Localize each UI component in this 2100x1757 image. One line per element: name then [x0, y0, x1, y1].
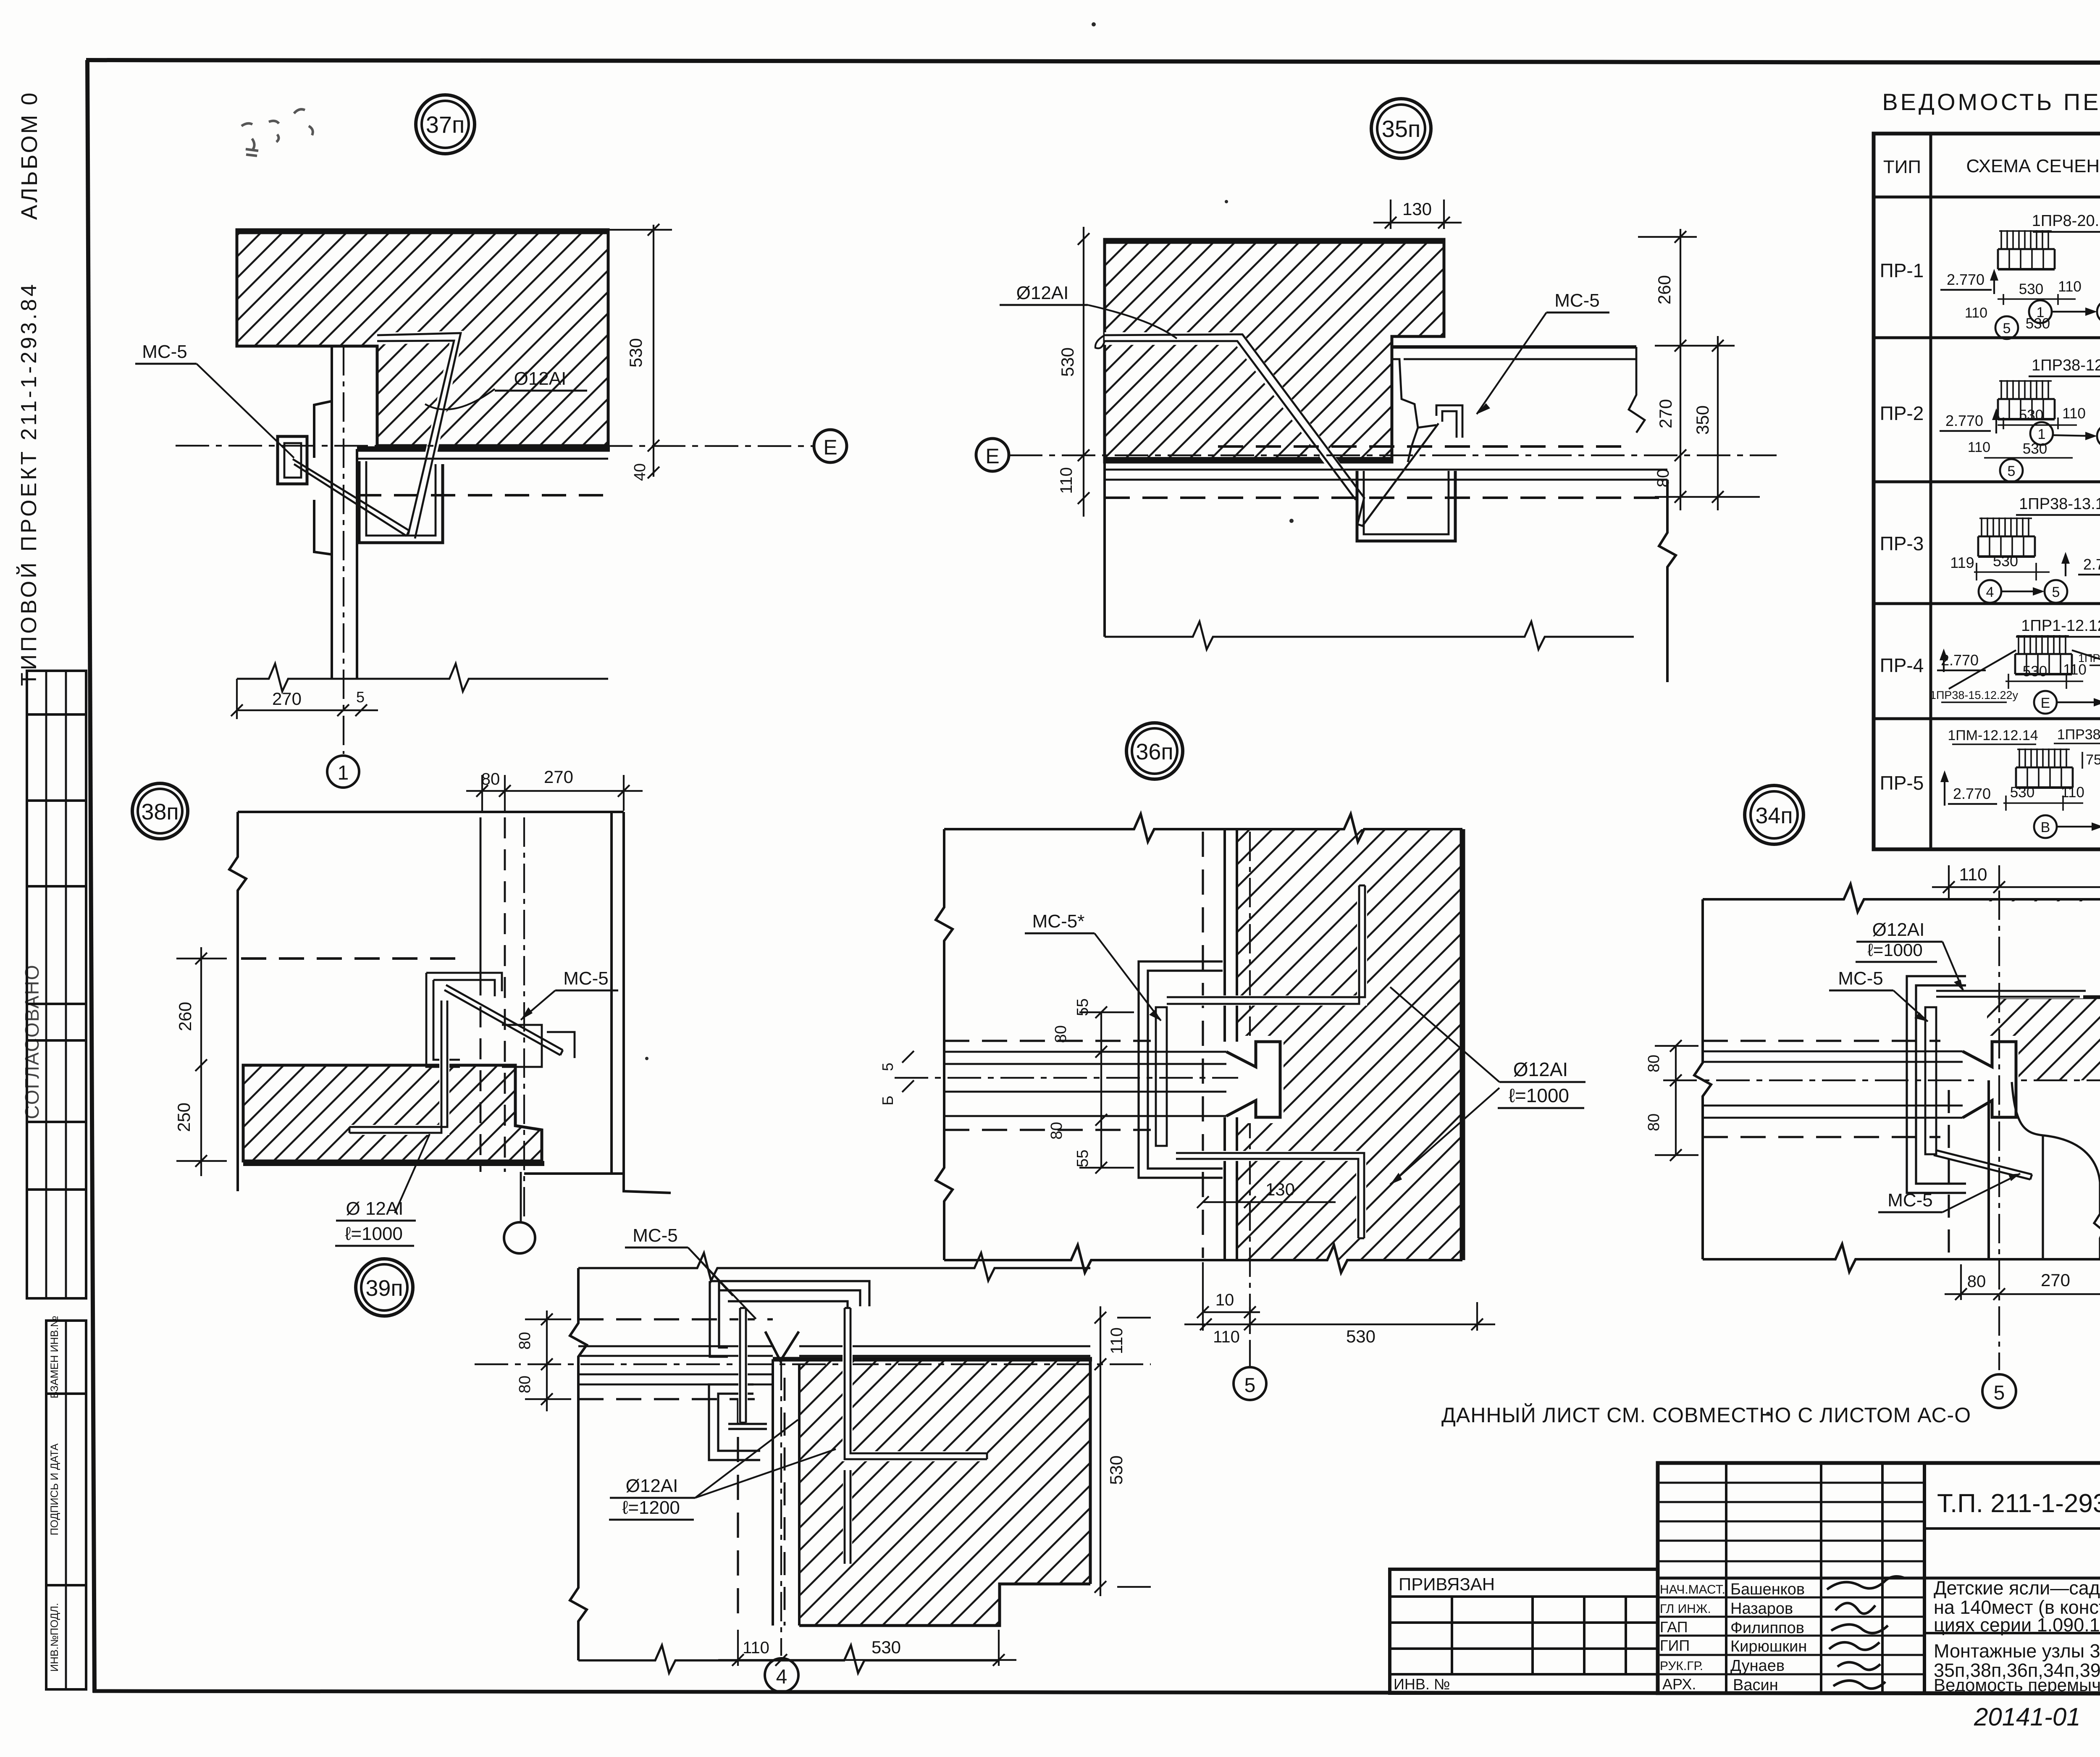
detail 34p wall joint verticals below — [1949, 1080, 1989, 1259]
svg-text:350: 350 — [1693, 405, 1712, 435]
detail 35p bottom break line — [1105, 622, 1634, 649]
svg-text:80: 80 — [481, 770, 500, 788]
svg-text:55: 55 — [1074, 998, 1092, 1016]
detail 36p label MC-5* — [1025, 911, 1161, 1021]
svg-text:Ø 12АІ: Ø 12АІ — [346, 1198, 404, 1219]
svg-text:Филиппов: Филиппов — [1730, 1619, 1804, 1637]
detail 35p bent rebar with V end — [1095, 334, 1438, 526]
lintel schedule grid — [1874, 134, 2100, 849]
detail 36p funnel joint — [1238, 1036, 1284, 1123]
svg-text:МС-5: МС-5 — [563, 968, 609, 989]
detail 39p bottom dimension 110/530 — [718, 1630, 1016, 1666]
detail 36p bottom dimensions 10/110/530 — [1184, 1262, 1495, 1346]
svg-text:530: 530 — [2023, 663, 2047, 680]
PR-5 section schema — [1940, 727, 2100, 838]
detail 34p label MC-5 lower — [1878, 1174, 2020, 1212]
detail 34p vertical axis dash-dot — [1998, 890, 2000, 1370]
svg-text:130: 130 — [1265, 1179, 1295, 1199]
svg-text:Т.П. 211-1-293.84: Т.П. 211-1-293.84 — [1937, 1489, 2100, 1518]
svg-text:Назаров: Назаров — [1730, 1600, 1793, 1618]
svg-text:20141-01: 20141-01 — [1974, 1703, 2081, 1731]
detail 38p L-rebar in slab — [349, 1001, 447, 1133]
svg-text:РУК.ГР.: РУК.ГР. — [1660, 1659, 1703, 1673]
detail 37p bottom dimension 270 — [231, 679, 378, 719]
svg-text:55: 55 — [1074, 1150, 1092, 1167]
svg-text:1ПР38-15.12.22у: 1ПР38-15.12.22у — [2057, 727, 2100, 743]
detail 35p roof slab right — [1392, 347, 1645, 433]
svg-text:1ПР38-13.12.22у: 1ПР38-13.12.22у — [2019, 495, 2100, 513]
svg-text:ТИПОВОЙ ПРОЕКТ 211-1-293.84: ТИПОВОЙ ПРОЕКТ 211-1-293.84 — [16, 282, 41, 686]
detail 36p axis circle 5 — [1234, 1367, 1266, 1400]
detail 37p axis circle E — [814, 430, 847, 462]
svg-text:ℓ=1200: ℓ=1200 — [622, 1497, 680, 1518]
svg-text:250: 250 — [174, 1103, 194, 1132]
detail 38p label d12AI l=1000 — [335, 1134, 430, 1246]
svg-text:Ø12АІ: Ø12АІ — [1016, 283, 1069, 303]
svg-text:119: 119 — [1950, 554, 1974, 571]
detail 35p trough below joint — [1357, 471, 1455, 541]
svg-text:Е: Е — [985, 444, 999, 468]
detail 38p top dimension 80/270 — [466, 767, 643, 811]
svg-text:2.770: 2.770 — [1953, 785, 1991, 802]
svg-text:циях серии 1.090.1-1): циях серии 1.090.1-1) — [1934, 1614, 2100, 1636]
svg-text:80: 80 — [516, 1332, 534, 1350]
svg-text:34п: 34п — [1755, 803, 1793, 828]
svg-text:1: 1 — [2037, 305, 2045, 320]
svg-text:1: 1 — [2038, 426, 2046, 442]
svg-text:МС-5: МС-5 — [142, 341, 187, 362]
detail 36p label d12AI l=1000 — [1390, 987, 1585, 1184]
svg-text:Дунаев: Дунаев — [1730, 1657, 1785, 1675]
detail 36p upper L-rebar — [1167, 885, 1365, 1004]
detail 35p axis circle E — [976, 439, 1009, 471]
detail 36p floor band lines — [895, 1041, 1239, 1130]
svg-text:ПР-1: ПР-1 — [1880, 260, 1924, 281]
detail 34p bottom dimension 80/270 — [1945, 1264, 2100, 1300]
svg-text:ℓ=1000: ℓ=1000 — [1509, 1085, 1569, 1106]
svg-text:2.770: 2.770 — [2083, 556, 2100, 573]
svg-text:270: 270 — [2041, 1270, 2070, 1290]
svg-text:СОГЛАСОВАНО: СОГЛАСОВАНО — [21, 964, 43, 1119]
svg-text:110: 110 — [2062, 405, 2086, 422]
svg-text:ПР-2: ПР-2 — [1880, 402, 1924, 424]
svg-text:5: 5 — [879, 1063, 896, 1071]
svg-text:270: 270 — [1656, 399, 1675, 428]
svg-text:530: 530 — [871, 1637, 901, 1657]
title block signatures — [1827, 1576, 1905, 1689]
detail 38p wall outline — [229, 812, 671, 1193]
PR-1 section schema — [1940, 212, 2100, 339]
svg-text:38п: 38п — [141, 799, 178, 825]
svg-text:80: 80 — [516, 1376, 534, 1393]
detail 34p funnel joint — [1974, 1036, 2019, 1123]
detail 36p small dimensions 55/80/80/55 — [879, 998, 1134, 1174]
svg-text:Ø12АІ: Ø12АІ — [1872, 919, 1925, 940]
detail 35p wall verticals below — [1105, 462, 1676, 682]
svg-text:270: 270 — [544, 767, 573, 787]
detail 35p top dimension 130 — [1373, 199, 1462, 229]
detail 37p label MC-5 — [135, 341, 294, 458]
svg-text:Ø12АІ: Ø12АІ — [626, 1476, 678, 1496]
detail 39p bottom break line — [578, 1645, 1000, 1673]
svg-text:ТИП: ТИП — [1883, 157, 1921, 177]
svg-text:10: 10 — [1215, 1291, 1234, 1309]
svg-text:110: 110 — [1108, 1327, 1126, 1354]
inventory strip boxes — [46, 1321, 86, 1394]
detail 39p top break line — [578, 1253, 1090, 1281]
detail 38p inner wall verticals — [480, 817, 505, 1172]
svg-text:80: 80 — [1048, 1122, 1066, 1140]
svg-text:260: 260 — [175, 1002, 195, 1031]
detail 37p trough below joint — [359, 461, 443, 543]
sheet border left line — [87, 60, 94, 1693]
detail 37p wall edges below — [314, 346, 357, 679]
detail 37p right dimension 530 — [608, 224, 672, 481]
detail 34p label d12AI l=1000 — [1856, 919, 1963, 991]
svg-text:ПРИВЯЗАН: ПРИВЯЗАН — [1399, 1574, 1495, 1594]
svg-text:1ПМ-12.12.14: 1ПМ-12.12.14 — [1948, 727, 2038, 743]
detail 37p hatched wall section — [237, 230, 610, 449]
svg-text:Е: Е — [823, 436, 837, 459]
svg-text:Е: Е — [2041, 695, 2050, 711]
detail 35p label MC-5 — [1477, 290, 1609, 414]
detail 39p funnel joint — [765, 1332, 799, 1361]
svg-text:110: 110 — [1213, 1328, 1240, 1346]
svg-text:Башенков: Башенков — [1730, 1581, 1805, 1598]
svg-text:110: 110 — [1968, 439, 1990, 455]
svg-text:1: 1 — [338, 762, 349, 784]
detail 36p grout pocket brackets — [1139, 961, 1223, 1178]
svg-text:ДАННЫЙ ЛИСТ СМ. СОВМЕСТНО С ЛИ: ДАННЫЙ ЛИСТ СМ. СОВМЕСТНО С ЛИСТОМ АС-О — [1441, 1403, 1971, 1427]
svg-text:530: 530 — [2019, 407, 2043, 423]
PR-4 section schema — [1930, 617, 2100, 714]
detail 34p label MC-5 upper — [1829, 968, 1928, 1022]
svg-text:130: 130 — [1402, 199, 1432, 219]
svg-text:530: 530 — [1058, 347, 1077, 377]
svg-text:ℓ=1000: ℓ=1000 — [1867, 940, 1923, 960]
svg-text:Васин: Васин — [1733, 1676, 1778, 1694]
detail 37p label d12AI — [425, 368, 587, 410]
svg-text:НАЧ.МАСТ.: НАЧ.МАСТ. — [1660, 1583, 1725, 1597]
approvals strip outer box — [27, 671, 86, 1298]
detail 39p left rebar — [740, 1308, 746, 1423]
detail 35p label d12AI — [1000, 283, 1177, 339]
svg-text:80: 80 — [1645, 1055, 1663, 1072]
detail 39p floor band lines — [475, 1319, 1151, 1399]
detail 37p bar channel white slot — [377, 337, 457, 537]
svg-text:Кирюшкин: Кирюшкин — [1730, 1638, 1807, 1655]
detail 37p axis circle 1 — [327, 756, 359, 788]
detail 37p bottom break line — [237, 664, 608, 691]
detail 34p beam seat profile curves — [2012, 1082, 2100, 1259]
lintel schedule header labels — [1883, 146, 2100, 199]
row type labels — [1880, 260, 1924, 794]
detail 36p hatched wall right — [1237, 829, 1462, 1260]
approvals strip row lines — [27, 713, 86, 716]
svg-text:110: 110 — [1959, 864, 1987, 884]
svg-text:110: 110 — [2061, 784, 2084, 801]
svg-text:ПР-4: ПР-4 — [1880, 654, 1924, 676]
svg-text:1ПР1-12.12.14: 1ПР1-12.12.14 — [2021, 617, 2100, 635]
detail 36p outer square outline — [936, 814, 1462, 1273]
detail 39p label d12AI l=1200 — [609, 1420, 836, 1520]
detail 38p diagonal strap MC-5 — [444, 985, 563, 1055]
detail 37p title circle — [416, 95, 475, 154]
svg-text:5: 5 — [2052, 584, 2060, 600]
svg-text:75: 75 — [2086, 752, 2100, 768]
svg-text:110: 110 — [1057, 467, 1076, 494]
title block grid — [1390, 1463, 2100, 1693]
detail 39p title circle — [356, 1259, 413, 1316]
detail 38p hatched floor slab — [243, 1065, 544, 1163]
svg-text:5: 5 — [2003, 320, 2011, 336]
svg-text:АЛЬБОМ 0: АЛЬБОМ 0 — [17, 91, 42, 220]
svg-text:ВЗАМЕН ИНВ.№: ВЗАМЕН ИНВ.№ — [49, 1316, 60, 1399]
sheet border bottom line — [93, 1691, 2100, 1694]
detail 39p vertical axis dash-dot — [780, 1361, 782, 1656]
detail 38p vertical axis dash-dot — [523, 817, 525, 1223]
svg-text:4: 4 — [776, 1666, 787, 1688]
svg-text:2.770: 2.770 — [1947, 271, 1984, 288]
detail 38p hidden line dashed — [241, 957, 464, 960]
detail 35p beam seat profile — [1392, 359, 1436, 462]
svg-text:260: 260 — [1654, 275, 1674, 305]
detail 39p hatched wall — [773, 1359, 1092, 1626]
stray scan dots — [645, 22, 2100, 1416]
svg-text:5: 5 — [356, 688, 365, 706]
detail 39p label MC-5 — [625, 1225, 756, 1319]
detail 38p label MC-5 — [521, 968, 618, 1020]
svg-text:530: 530 — [1106, 1455, 1126, 1485]
detail 39p left dimension 80/80 — [516, 1311, 571, 1411]
sheet border top line — [86, 60, 2100, 63]
svg-text:39п: 39п — [365, 1276, 403, 1301]
svg-text:37п: 37п — [426, 111, 465, 138]
svg-text:530: 530 — [1993, 552, 2018, 570]
svg-text:80: 80 — [1967, 1272, 1986, 1291]
detail 39p lower-left pocket bracket — [709, 1384, 767, 1460]
detail 34p outer outline — [1694, 884, 2100, 1272]
detail 36p wall joint verticals — [1203, 829, 1237, 1260]
svg-text:1ПР8-20.12.22у: 1ПР8-20.12.22у — [2032, 212, 2100, 230]
svg-text:ℓ=1000: ℓ=1000 — [345, 1224, 403, 1244]
detail 34p hatched wall — [1987, 899, 2100, 1137]
detail 34p upper rebar — [1936, 991, 2086, 997]
svg-text:35п: 35п — [1382, 116, 1421, 142]
svg-text:ГИП: ГИП — [1660, 1637, 1690, 1654]
svg-text:Ø12АI: Ø12АI — [1513, 1058, 1568, 1080]
detail 35p floor slab lines — [1105, 446, 1667, 498]
approvals strip inner verticals — [45, 671, 47, 1298]
detail 34p lower strap MC-5 — [1934, 1150, 2032, 1179]
svg-text:36п: 36п — [1136, 739, 1173, 764]
scan smudge top left — [241, 109, 313, 156]
svg-text:110: 110 — [2058, 278, 2082, 295]
detail 37p vertical axis dash-dot — [343, 346, 344, 754]
title block object name — [1934, 1577, 2100, 1636]
detail 34p title circle — [1745, 785, 1803, 844]
detail 39p joint pocket brackets — [710, 1281, 869, 1357]
svg-text:40: 40 — [631, 463, 649, 481]
svg-text:ПР-3: ПР-3 — [1880, 533, 1924, 554]
detail 39p right L-rebar — [845, 1308, 987, 1564]
detail 37p MC-5 anchor plate — [278, 436, 307, 484]
detail 38p title circle — [132, 783, 188, 839]
svg-text:530: 530 — [2010, 784, 2034, 801]
detail 36p dimension 130 — [1197, 1179, 1336, 1208]
svg-text:МС-5*: МС-5* — [1032, 911, 1085, 932]
title block role labels — [1660, 1583, 1725, 1693]
detail 35p anchor angle — [1436, 405, 1462, 438]
svg-text:ИНВ.№ПОДЛ.: ИНВ.№ПОДЛ. — [49, 1603, 60, 1672]
detail 37p slab lines — [357, 459, 608, 495]
svg-text:1ПР38-12.12.22у: 1ПР38-12.12.22у — [2032, 357, 2100, 374]
detail 39p axis circle 4 — [765, 1658, 798, 1692]
detail 37p diagonal strap — [293, 459, 409, 536]
svg-text:В: В — [2041, 819, 2050, 835]
svg-text:110: 110 — [743, 1639, 769, 1657]
svg-text:80: 80 — [1654, 469, 1672, 488]
svg-text:Б: Б — [879, 1095, 896, 1106]
detail 39p wall joint verticals — [738, 1359, 785, 1626]
svg-text:5: 5 — [2008, 463, 2016, 479]
svg-text:80: 80 — [1052, 1025, 1070, 1043]
svg-text:530: 530 — [2023, 441, 2047, 457]
svg-text:ИНВ. №: ИНВ. № — [1394, 1676, 1450, 1693]
svg-text:Ведомость перемычек: Ведомость перемычек — [1934, 1675, 2100, 1695]
detail 35p horizontal centreline — [1009, 454, 1777, 456]
svg-text:Детские ясли—сад: Детские ясли—сад — [1934, 1577, 2100, 1599]
detail 36p vertical axis dash-dot — [1249, 832, 1251, 1368]
svg-text:МС-5: МС-5 — [1887, 1190, 1933, 1211]
svg-text:80: 80 — [1645, 1114, 1663, 1131]
detail 36p title circle — [1126, 723, 1183, 779]
svg-text:110: 110 — [1965, 305, 1987, 321]
svg-text:МС-5: МС-5 — [1554, 290, 1600, 311]
PR-3 section schema — [1950, 495, 2100, 603]
svg-text:АРХ.: АРХ. — [1662, 1676, 1696, 1693]
detail 37p horizontal centreline — [176, 446, 813, 446]
title block names — [1730, 1581, 1807, 1694]
svg-text:СХЕМА СЕЧЕНИЯ: СХЕМА СЕЧЕНИЯ — [1966, 156, 2100, 176]
detail 37p bent rebar — [377, 333, 461, 538]
detail 38p left dimension 260/250 — [174, 947, 227, 1176]
svg-text:5: 5 — [1994, 1382, 2005, 1404]
detail 39p left edge — [570, 1268, 587, 1660]
svg-text:530: 530 — [626, 338, 646, 368]
detail 35p left dimension 530/110 — [1057, 227, 1089, 517]
svg-text:МС-5: МС-5 — [1838, 968, 1883, 989]
svg-text:5: 5 — [1244, 1374, 1256, 1397]
svg-text:1ПР38-15.12.22у: 1ПР38-15.12.22у — [1930, 689, 2019, 701]
svg-text:270: 270 — [272, 689, 302, 709]
detail 35p hatched lintel section — [1105, 239, 1444, 462]
PR-2 section schema — [1940, 357, 2100, 482]
svg-text:2.770: 2.770 — [1945, 412, 1983, 429]
svg-text:Ø12АІ: Ø12АІ — [514, 368, 567, 389]
detail 38p joint pocket brackets — [426, 973, 575, 1067]
svg-text:Монтажные узлы 37п,: Монтажные узлы 37п, — [1934, 1640, 2100, 1662]
detail 36p lower L-rebar — [1176, 1153, 1364, 1238]
svg-text:ГЛ ИНЖ.: ГЛ ИНЖ. — [1660, 1602, 1711, 1616]
detail 35p right dimensions 260/270/80/350 — [1638, 229, 1760, 510]
svg-text:530: 530 — [2019, 281, 2043, 297]
detail 38p node circle below — [504, 1172, 535, 1253]
detail 34p left dimension 80/80 — [1645, 1040, 1698, 1161]
svg-text:ПР-5: ПР-5 — [1880, 772, 1924, 794]
detail 39p right dimension 110/530 — [1095, 1306, 1151, 1596]
svg-text:ГАП: ГАП — [1660, 1618, 1688, 1636]
detail 34p MC-5 anchor plate — [1925, 1007, 1936, 1154]
svg-text:1ПР38-15.12.22у: 1ПР38-15.12.22у — [2078, 652, 2100, 664]
svg-text:МС-5: МС-5 — [633, 1225, 678, 1246]
svg-text:ВЕДОМОСТЬ ПЕРЕМЫЧЕК: ВЕДОМОСТЬ ПЕРЕМЫЧЕК — [1882, 89, 2100, 115]
detail 35p title circle — [1371, 99, 1431, 158]
svg-text:4: 4 — [1986, 584, 1994, 600]
svg-text:ПОДПИСЬ И ДАТА: ПОДПИСЬ И ДАТА — [49, 1443, 60, 1535]
detail 34p floor band lines — [1663, 1041, 2100, 1137]
detail 35p bar channel white slot — [1105, 339, 1360, 500]
detail 36p MC-5 anchor plate — [1156, 1007, 1167, 1146]
detail 34p axis circle 5 — [1982, 1374, 2016, 1408]
detail 34p top dimension 110/530 — [1932, 864, 2100, 899]
svg-text:530: 530 — [1346, 1326, 1375, 1346]
detail 34p grout pocket brackets — [1907, 976, 1966, 1193]
title block sheet name — [1934, 1640, 2100, 1695]
